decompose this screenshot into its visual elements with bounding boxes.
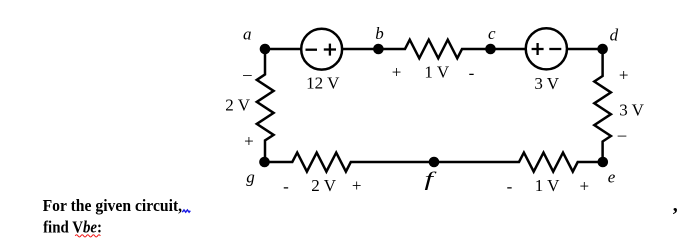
- svg-text:+: +: [619, 65, 629, 84]
- svg-text:find Vbe:: find Vbe:: [43, 218, 102, 237]
- svg-text:–: –: [242, 65, 252, 84]
- svg-text:+: +: [352, 176, 362, 195]
- svg-text:1 V: 1 V: [424, 63, 449, 82]
- svg-text:12 V: 12 V: [306, 74, 340, 93]
- svg-text:1 V: 1 V: [535, 176, 560, 195]
- svg-text:3 V: 3 V: [534, 74, 559, 93]
- svg-text:d: d: [610, 26, 619, 45]
- svg-text:f: f: [425, 168, 438, 190]
- svg-text:a: a: [243, 25, 252, 44]
- svg-text:-: -: [283, 177, 289, 196]
- svg-text:+: +: [244, 132, 254, 151]
- svg-text:For the given circuit,: For the given circuit,: [43, 196, 183, 215]
- svg-text:2 V: 2 V: [311, 176, 336, 195]
- svg-text:–: –: [617, 125, 627, 144]
- svg-text:+: +: [580, 176, 590, 195]
- svg-text:+: +: [392, 63, 402, 82]
- svg-text:c: c: [488, 24, 496, 43]
- svg-text:-: -: [507, 177, 513, 196]
- svg-text:-: -: [469, 64, 475, 83]
- svg-text:3 V: 3 V: [619, 101, 644, 120]
- svg-text:b: b: [375, 24, 384, 43]
- svg-text:e: e: [608, 168, 616, 187]
- svg-text:g: g: [246, 167, 255, 186]
- svg-text:2 V: 2 V: [225, 96, 250, 115]
- svg-text:,: ,: [673, 194, 678, 216]
